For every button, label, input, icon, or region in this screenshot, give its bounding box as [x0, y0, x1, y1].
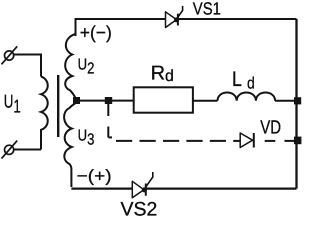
diode VD (triangle)	[240, 133, 252, 148]
node: center tap junction dot	[73, 97, 80, 104]
thyristor VS1 cathode bar	[177, 14, 179, 26]
wire: node 2 to resistor Rd	[112, 100, 133, 102]
transformer primary winding U1	[41, 77, 48, 150]
svg-text:VD: VD	[260, 117, 281, 138]
thyristor VS2 apex blob	[142, 187, 147, 192]
freewheel dashed corner foot	[108, 136, 112, 138]
transformer core	[57, 75, 59, 137]
svg-text:VS1: VS1	[193, 0, 221, 19]
label VD	[260, 117, 281, 138]
thyristor VS2 gate lead	[146, 172, 153, 187]
transformer secondary winding U2	[65, 34, 76, 100]
svg-text:VS2: VS2	[121, 199, 158, 216]
label U1	[4, 90, 21, 116]
wire: middle branch from center tap to node 2	[80, 100, 105, 102]
freewheel dashes after VD to node	[265, 140, 276, 142]
freewheel dashed horizontal line	[116, 140, 240, 142]
wire: terminal X1 to primary top	[14, 55, 41, 77]
wire: Ld to output node	[275, 100, 294, 102]
thyristor VS1 apex blob	[174, 17, 179, 22]
transformer secondary winding U3	[64, 103, 76, 188]
thyristor VS2 cathode bar	[145, 184, 147, 196]
label U3	[78, 127, 95, 148]
terminal X1 (top-left input, circle with slash)	[2, 46, 18, 64]
label VS1	[193, 0, 221, 19]
wire: top rail from VS1 cathode to right rail	[179, 18, 297, 20]
right rail wire	[295, 19, 297, 189]
terminal X2 (bottom-left input, circle with slash)	[2, 141, 18, 159]
svg-text:+(−): +(−)	[80, 23, 112, 43]
wire: bottom rail left segment to U3 stub	[71, 188, 132, 190]
diode VD cathode bar	[253, 133, 255, 148]
wire: bottom rail right segment	[147, 188, 297, 190]
node 2 junction dot (freewheel tap)	[105, 97, 112, 104]
freewheel current stub below node 2	[107, 104, 109, 116]
wire: primary bottom to terminal X2	[14, 149, 41, 151]
inductor Ld (3 arcs)	[218, 93, 276, 101]
thyristor VS2 (triangle)	[132, 181, 144, 197]
wire: U2 top stub up to top rail corner	[76, 19, 166, 36]
label U2	[78, 57, 95, 78]
wire: Rd to Ld	[193, 100, 218, 102]
freewheel dashed vertical dash	[107, 127, 109, 138]
node: output junction dot (right rail / Ld)	[294, 97, 301, 104]
label Ld	[232, 68, 255, 93]
node: VD junction dot on right rail	[294, 137, 301, 145]
thyristor VS1 gate lead	[178, 6, 183, 17]
resistor Rd (box)	[134, 87, 193, 112]
svg-text:−(+): −(+)	[77, 167, 112, 186]
thyristor VS1 (triangle)	[166, 12, 177, 28]
